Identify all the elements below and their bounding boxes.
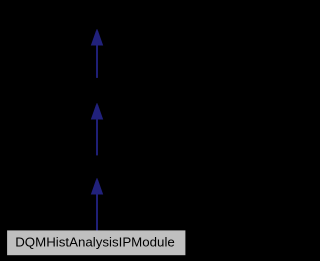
arrow 2 (middle inheritance edge)	[91, 104, 103, 156]
inheritance graph for DQMHistAnalysisIPModule (dark background)	[0, 0, 192, 261]
node DQMHistAnalysisIPModule (current class box)	[7, 230, 185, 255]
arrow 3 (bottom inheritance edge)	[91, 179, 103, 231]
svg-text:DQMHistAnalysisIPModule: DQMHistAnalysisIPModule	[15, 235, 175, 250]
arrow 1 (top inheritance edge)	[91, 30, 103, 78]
